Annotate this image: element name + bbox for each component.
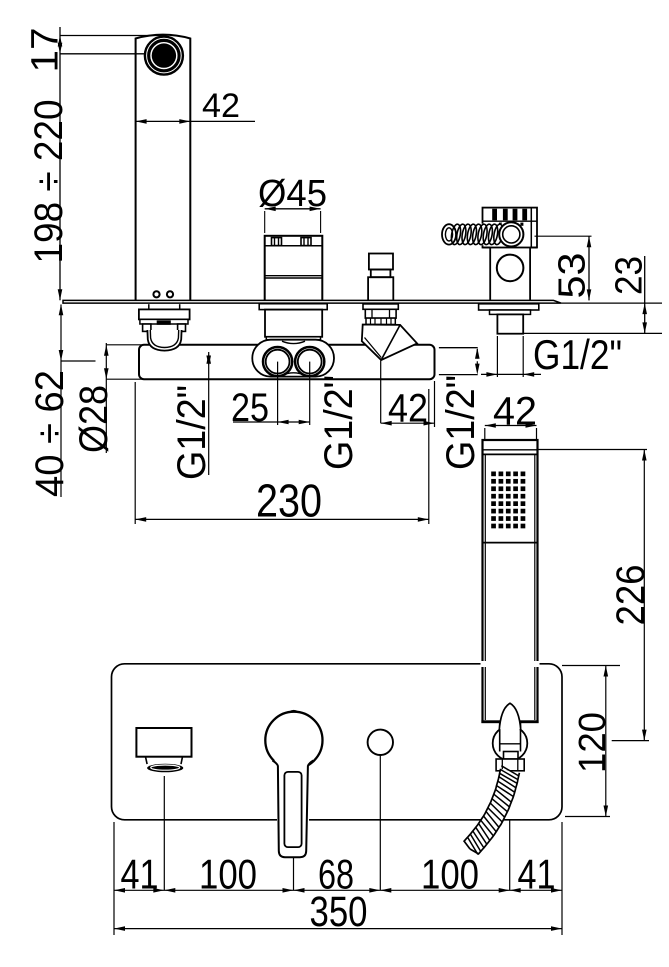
ext line plate left: [113, 822, 115, 935]
dim line 120: [605, 666, 607, 817]
dim line 40-62: [60, 305, 62, 498]
dim line 42 spout: [136, 120, 255, 122]
leader diverter plan: [379, 756, 381, 891]
arrow 230 right: [418, 517, 429, 522]
shank tick 23: [523, 332, 662, 334]
handle lever: [273, 761, 314, 858]
svg-text:G1/2": G1/2": [170, 385, 214, 480]
arrow 40-62 top: [59, 304, 64, 315]
shower wand bottom: [481, 720, 538, 723]
shower inner edges: [484, 455, 486, 720]
twin-port stadium: [252, 340, 334, 377]
plan plate outline: [112, 664, 563, 820]
dim tick 226 top: [538, 449, 648, 451]
ext lines 230: [134, 382, 136, 524]
dim tick 53 top: [535, 235, 592, 237]
svg-text:23: 23: [609, 256, 651, 295]
svg-text:Ø45: Ø45: [258, 173, 327, 215]
svg-text:100: 100: [199, 851, 257, 898]
dim tick y53.8: [60, 53, 145, 55]
wand stem lines: [499, 723, 501, 752]
arrow 25 right: [299, 420, 310, 425]
dim tick y35.5: [60, 35, 167, 37]
dim tick 226 bottom: [612, 740, 649, 742]
diverter flange: [363, 304, 398, 309]
holder flange: [479, 304, 539, 310]
arrow 40-62 bottom: [59, 350, 64, 361]
dim tick 120 top: [562, 665, 620, 667]
spout plan body: [136, 728, 191, 757]
spout plan neck: [146, 757, 183, 764]
cartridge top tab left: [272, 238, 282, 246]
spout fitting nut left: [143, 324, 151, 331]
chain dim arrows: [114, 888, 125, 893]
cartridge lower body: [265, 310, 322, 337]
svg-text:230: 230: [256, 475, 322, 527]
svg-text:41: 41: [518, 851, 556, 898]
arrow Ø28 bottom: [104, 368, 109, 379]
shank dim line: [481, 373, 541, 375]
handle knob circle: [265, 712, 322, 769]
holder shank: [497, 314, 523, 333]
diverter cone: [362, 325, 417, 361]
spout aerator outer ring: [145, 37, 183, 75]
wand nut chord: [500, 743, 521, 745]
dim line 42 diverter: [381, 422, 435, 424]
svg-text:226: 226: [609, 565, 653, 626]
diverter knob middle: [371, 270, 391, 278]
cartridge top inner line: [265, 245, 323, 247]
arrow 23 bottom: [642, 322, 647, 333]
arrow 226 top: [642, 450, 647, 461]
port circle left: [263, 347, 292, 376]
plate gap for lever: [277, 817, 309, 823]
spout fitting flange: [139, 309, 190, 319]
arrow 25 left: [278, 420, 289, 425]
ext lines Ø45: [264, 211, 266, 233]
spout fitting nut right: [178, 324, 186, 331]
dim line 53: [588, 236, 590, 300]
wand small rect: [504, 752, 519, 760]
svg-text:42: 42: [202, 87, 240, 125]
diverter thread band: [366, 318, 395, 324]
spout column (side view): [136, 35, 191, 301]
holder lower body: [489, 248, 491, 301]
arrow 42d left: [381, 421, 392, 426]
leader hose plan: [509, 820, 511, 890]
diverter knob base: [368, 277, 393, 301]
handle lever inner: [284, 772, 301, 847]
dim line 226: [643, 450, 645, 741]
dim line 230: [135, 518, 429, 520]
spout aerator black disc: [152, 43, 176, 67]
arrow Ø45 left: [265, 207, 276, 212]
right port dim line: [476, 349, 478, 373]
arrow 42d right: [424, 421, 435, 426]
shower head seam: [483, 449, 538, 451]
arrow 226 bottom: [642, 730, 647, 741]
arrow 350 right: [551, 926, 562, 931]
hose spring horizontal: [440, 224, 506, 246]
holder bracket block: [483, 208, 538, 248]
spray nozzle grid: [491, 472, 496, 477]
spout aerator middle ring: [149, 41, 179, 71]
left inlet arrows: [206, 353, 211, 364]
holder comb marks: [499, 223, 502, 226]
svg-text:G1/2": G1/2": [317, 375, 361, 470]
corrugated hose: [464, 769, 519, 854]
svg-text:100: 100: [421, 851, 479, 898]
holder comb base line: [483, 220, 538, 222]
holder comb teeth: [492, 209, 497, 221]
cartridge top tab right: [301, 238, 311, 246]
right port lines: [439, 347, 478, 349]
arrow 120 bottom: [604, 806, 609, 817]
cartridge flange: [259, 304, 327, 310]
svg-text:198 ÷ 220: 198 ÷ 220: [27, 100, 71, 264]
handle top notch: [290, 711, 299, 713]
spout hose bend: [147, 330, 181, 351]
port leaders 25: [277, 362, 279, 425]
spout fitting mid tab: [157, 320, 171, 324]
shower face bottom: [483, 542, 538, 544]
dim line Ø28: [105, 343, 107, 453]
ext line plate right: [561, 822, 563, 935]
dim line 25: [233, 421, 310, 423]
arrow 350 left: [114, 926, 125, 931]
hose collar ring: [499, 222, 523, 246]
shower wand body: [483, 440, 538, 722]
arrow 230 left: [135, 517, 146, 522]
shank ext lines: [496, 336, 498, 377]
port circle right: [295, 347, 324, 376]
wand nut circle: [493, 726, 528, 761]
spout plan aerator: [147, 764, 183, 773]
dim tick 40-62: [61, 360, 96, 362]
right port arrows: [475, 348, 480, 359]
svg-text:41: 41: [121, 851, 159, 898]
deck plate: [63, 300, 561, 303]
dim line 350: [114, 928, 562, 930]
dim tick 120 bottom: [565, 816, 610, 818]
svg-text:Ø28: Ø28: [72, 385, 116, 453]
holder inner edge: [530, 208, 532, 248]
diverter nut: [365, 309, 396, 318]
leader handle plan: [293, 858, 295, 891]
dim line 23: [644, 256, 646, 333]
arrow 17 bottom: [58, 43, 63, 54]
dim ticks Ø28: [106, 344, 146, 346]
arrow 42 left: [136, 119, 147, 124]
arrow 42 right: [179, 119, 190, 124]
ext lines 42 shower: [484, 428, 486, 439]
arrow 120 top: [604, 666, 609, 677]
hose nut band: [496, 759, 524, 771]
arrow 42s right: [526, 423, 537, 428]
chain dim line: [114, 889, 562, 891]
arrow 198-220 bottom: [58, 289, 63, 300]
deck plate tick right: [561, 302, 662, 304]
dim line Ø45: [265, 208, 321, 210]
svg-text:G1/2": G1/2": [533, 331, 622, 378]
dim line 42 shower: [485, 425, 537, 427]
arrow Ø28 top: [104, 345, 109, 356]
arrow 53 top: [587, 236, 592, 247]
svg-text:17: 17: [25, 27, 67, 72]
plate gap for wand: [481, 661, 540, 667]
arrow 17 top: [58, 36, 63, 47]
holder nut band: [490, 310, 531, 314]
shank arrows: [486, 372, 497, 377]
svg-text:350: 350: [310, 888, 368, 936]
left inlet leader: [208, 352, 210, 475]
ext line bar end: [434, 381, 436, 427]
holder hole circle: [497, 255, 524, 282]
spout fitting band: [140, 319, 188, 324]
diverter plan knob: [368, 730, 393, 755]
svg-text:40 ÷ 62: 40 ÷ 62: [28, 370, 72, 497]
arrow 42s left: [485, 423, 496, 428]
arrow 23 top: [642, 303, 647, 314]
cartridge bottom plate: [266, 337, 320, 340]
spout fitting stems: [148, 304, 150, 309]
leader spout plan: [163, 776, 165, 890]
svg-text:42: 42: [388, 387, 428, 431]
diverter knob top: [369, 254, 393, 270]
svg-text:120: 120: [572, 712, 614, 773]
arrow 53 bottom: [587, 289, 592, 300]
arrow Ø45 right: [310, 207, 321, 212]
svg-text:G1/2": G1/2": [439, 375, 483, 470]
diverter leader: [380, 361, 382, 424]
stadium waist notches: [282, 341, 305, 343]
teardrop connector: [499, 703, 521, 729]
cartridge seam lines: [265, 275, 323, 277]
cartridge body (Ø45): [265, 236, 323, 301]
deck screws: [153, 291, 159, 297]
svg-text:42: 42: [493, 390, 537, 434]
svg-text:53: 53: [552, 253, 594, 299]
svg-text:25: 25: [231, 386, 269, 430]
dim line left vertical: [59, 27, 61, 300]
mixer bar body: [139, 345, 435, 379]
